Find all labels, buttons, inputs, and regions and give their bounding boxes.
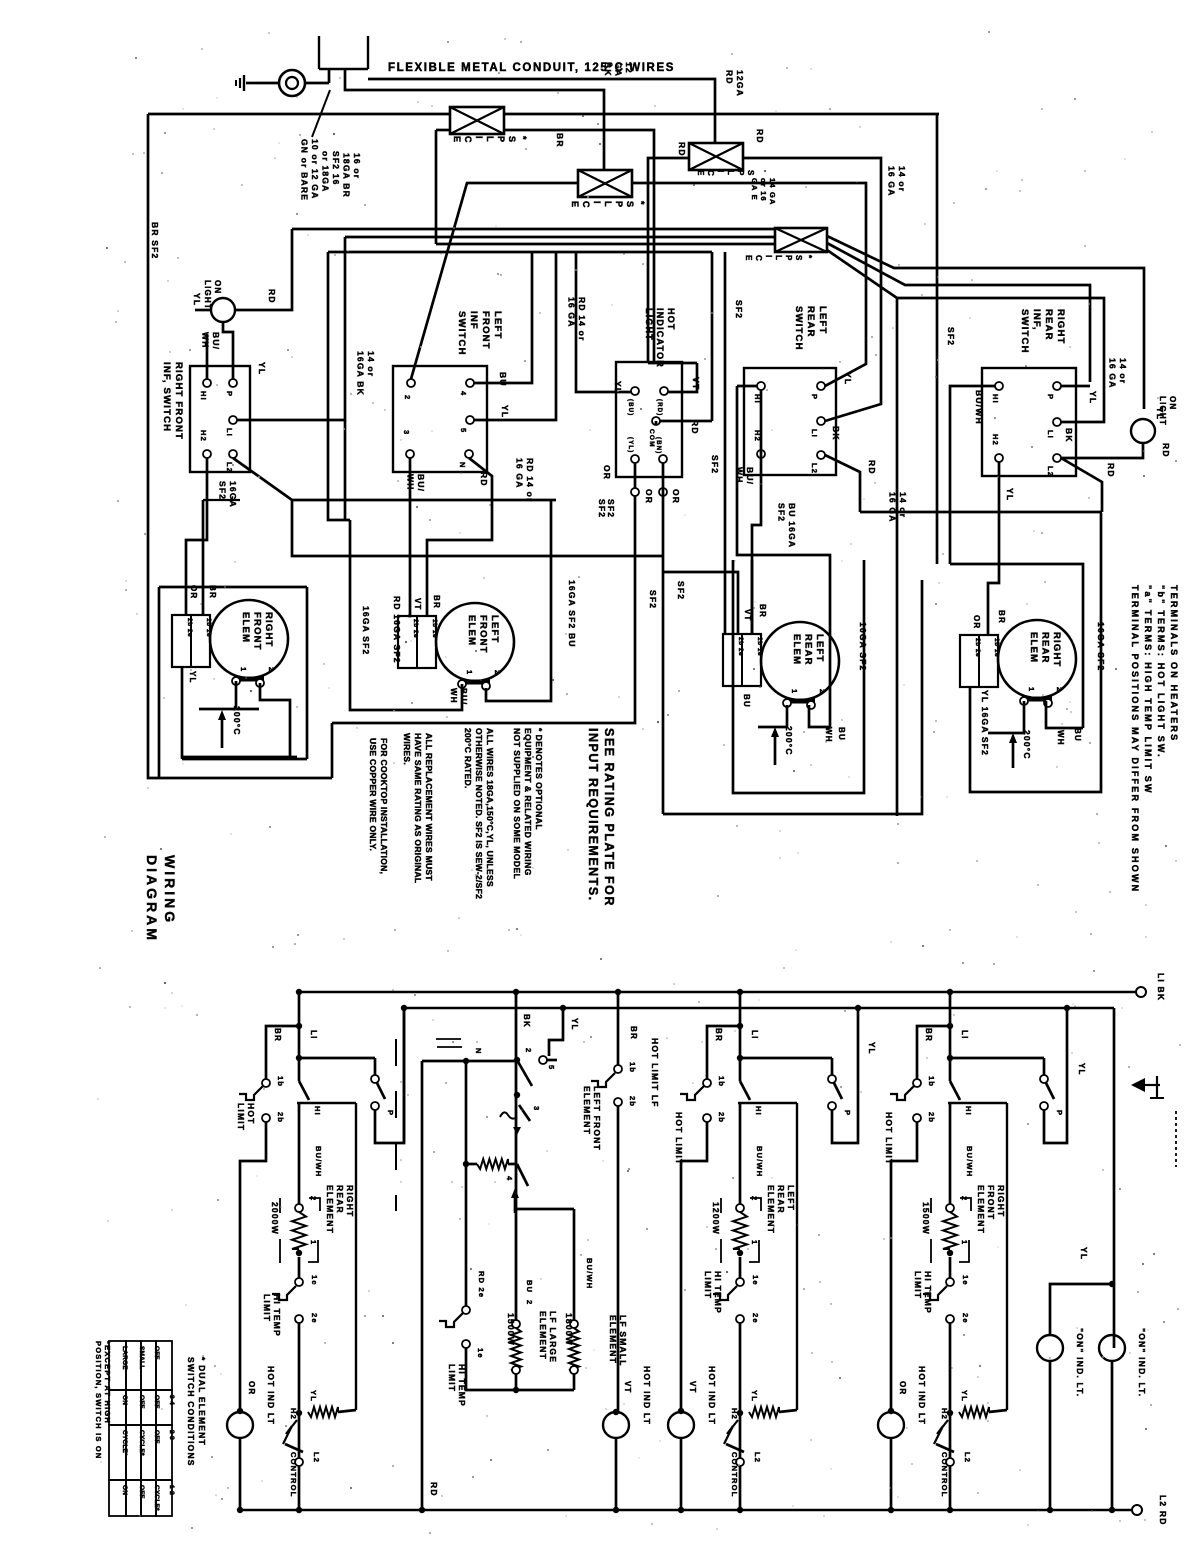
svg-text:2b: 2b <box>276 1112 285 1123</box>
svg-text:SF2 16: SF2 16 <box>331 151 341 186</box>
svg-text:16 GA: 16 GA <box>887 166 897 197</box>
svg-text:INDICATOR: INDICATOR <box>655 308 665 368</box>
svg-text:RD: RD <box>677 142 687 157</box>
svg-text:BR: BR <box>432 595 441 609</box>
svg-text:BR: BR <box>273 1028 282 1042</box>
branch at x=950 <box>947 989 953 995</box>
svg-text:ELEMENT: ELEMENT <box>766 1185 776 1234</box>
svg-text:LI: LI <box>960 1030 969 1040</box>
wire L2 RD down <box>825 455 860 512</box>
svg-text:BK: BK <box>603 62 613 77</box>
wire term2 down <box>260 683 290 757</box>
svg-text:YL: YL <box>188 671 197 684</box>
svg-text:LI: LI <box>810 429 819 438</box>
svg-text:H2: H2 <box>289 1408 298 1420</box>
svg-text:LI: LI <box>225 428 234 437</box>
svg-text:LIGHT: LIGHT <box>203 280 212 310</box>
svg-text:BU/WH: BU/WH <box>755 1146 764 1177</box>
svg-text:OFF: OFF <box>153 1395 160 1409</box>
svg-text:OTHERWISE NOTED. SF2 IS SEW-2/: OTHERWISE NOTED. SF2 IS SEW-2/SF2 <box>474 728 484 899</box>
wire S3 left to hot light BU <box>648 158 689 363</box>
enclosure right rear elem <box>970 513 1101 792</box>
svg-text:BK: BK <box>522 1014 531 1028</box>
term bottom 1800W <box>570 1366 578 1374</box>
control contact L2 <box>295 1458 303 1466</box>
wire H2 down to RF elem OR <box>186 458 207 615</box>
wire 2b to hot ind lt <box>891 1122 917 1411</box>
svg-text:OR: OR <box>671 489 681 504</box>
svg-text:12: 12 <box>624 62 634 74</box>
svg-text:P: P <box>784 255 793 261</box>
terminal block left front <box>398 616 436 668</box>
hi temp contact 1e <box>946 1278 954 1286</box>
svg-text:YL: YL <box>1155 407 1165 420</box>
svg-text:BR: BR <box>997 610 1006 624</box>
control lever <box>724 1420 738 1444</box>
svg-text:LIMIT: LIMIT <box>262 1294 272 1322</box>
P lever <box>1046 1083 1054 1099</box>
resistor 1500W <box>943 1212 957 1249</box>
svg-text:EQUIPMENT & RELATED WIRING: EQUIPMENT & RELATED WIRING <box>523 728 533 876</box>
svg-text:BR SF2: BR SF2 <box>150 222 160 259</box>
term bottom 1500W <box>512 1366 520 1374</box>
hot limit lever <box>239 1086 263 1100</box>
lever 3 <box>519 1105 530 1121</box>
wire BR arm <box>707 1026 740 1079</box>
wire BN down <box>662 463 665 814</box>
svg-text:1-2: 1-2 <box>168 1485 175 1495</box>
svg-text:SF2: SF2 <box>777 503 787 522</box>
wire ring to conduit <box>305 82 329 85</box>
svg-text:YL: YL <box>613 381 623 394</box>
svg-text:GN or BARE: GN or BARE <box>300 139 310 201</box>
hot limit lever b2 <box>591 1073 615 1087</box>
svg-text:10 or 12 GA: 10 or 12 GA <box>310 139 320 199</box>
svg-text:1: 1 <box>309 1240 318 1245</box>
wire ON light to P RF switch <box>223 322 233 379</box>
svg-text:12GA: 12GA <box>735 70 745 97</box>
svg-text:16 or: 16 or <box>352 153 362 179</box>
svg-text:"ON" IND. LT.: "ON" IND. LT. <box>1075 1328 1085 1397</box>
svg-text:BU: BU <box>525 1280 534 1293</box>
svg-text:H2: H2 <box>730 1408 739 1420</box>
svg-text:(RD): (RD) <box>656 399 662 416</box>
svg-text:REAR: REAR <box>1043 309 1054 341</box>
200C arrow RR <box>1012 737 1015 768</box>
wire term4 up <box>474 252 532 383</box>
wire x725 down to LR block <box>724 252 727 634</box>
wire 2b to hot ind lt <box>681 1122 707 1411</box>
wire BR down to block <box>751 560 754 634</box>
bracket 2 <box>309 1198 320 1211</box>
terminal 1 <box>737 1250 743 1256</box>
svg-text:L2: L2 <box>312 1452 321 1463</box>
svg-text:VT: VT <box>688 1381 697 1394</box>
svg-text:BU/: BU/ <box>745 467 755 485</box>
P switch at x=1044 <box>950 1057 1044 1060</box>
svg-text:L: L <box>774 255 783 260</box>
svg-text:RIGHT: RIGHT <box>263 612 274 648</box>
terminal 5 <box>466 416 474 424</box>
svg-text:L2: L2 <box>753 1452 762 1463</box>
bus 2 <box>404 1007 1114 1009</box>
svg-text:TERMINALS ON HEATERS: TERMINALS ON HEATERS <box>1169 585 1179 742</box>
svg-text:16GA BK: 16GA BK <box>356 351 366 396</box>
svg-text:L2: L2 <box>1046 466 1055 477</box>
svg-text:2b 2e: 2b 2e <box>412 619 419 638</box>
P lever <box>834 1083 842 1099</box>
svg-text:2: 2 <box>525 1300 534 1305</box>
svg-text:"a" TERMS: HIGH TEMP LIMIT SW: "a" TERMS: HIGH TEMP LIMIT SW <box>1143 585 1153 795</box>
terminal block right front <box>172 615 210 667</box>
svg-text:RD 2e: RD 2e <box>477 1271 486 1298</box>
terminal 2 <box>295 1204 303 1212</box>
svg-text:TERMINAL POSITIONS MAY DIFFER: TERMINAL POSITIONS MAY DIFFER FROM SHOWN <box>1130 585 1140 893</box>
svg-text:1500W: 1500W <box>921 1202 931 1235</box>
wire P right <box>1061 385 1090 388</box>
wires out of splice S4 diagonals <box>827 236 1144 409</box>
svg-text:2b 2e: 2b 2e <box>974 638 981 657</box>
svg-text:FRONT: FRONT <box>478 615 489 654</box>
terminal 1 <box>296 1250 302 1256</box>
wire COM right <box>660 420 712 423</box>
svg-text:LI: LI <box>1046 430 1055 439</box>
wire y252 <box>328 251 712 254</box>
terminal L1 <box>229 416 237 424</box>
svg-text:C: C <box>706 170 715 176</box>
branch at x=740 <box>737 989 743 995</box>
svg-text:BK: BK <box>831 426 841 441</box>
connector BN <box>659 488 667 496</box>
wire LF small down <box>573 1209 576 1320</box>
P contact upper <box>1040 1075 1048 1083</box>
svg-text:1b: 1b <box>717 1076 726 1087</box>
svg-text:1: 1 <box>1027 687 1036 692</box>
svg-text:P: P <box>386 1110 395 1116</box>
splice S3 <box>689 143 743 170</box>
hot limit contact 2b <box>262 1114 270 1122</box>
svg-text:HOT IND LT: HOT IND LT <box>707 1366 717 1425</box>
svg-text:14 or: 14 or <box>897 166 907 192</box>
infinite switch resistor <box>477 1159 508 1169</box>
svg-text:E: E <box>452 136 462 142</box>
wire S3 right to left rear switch L1 <box>743 158 881 421</box>
200C arrow line <box>221 714 224 748</box>
svg-text:ALL REPLACEMENT WIRES MUST: ALL REPLACEMENT WIRES MUST <box>424 733 434 881</box>
svg-text:2: 2 <box>818 689 827 694</box>
H2 junction <box>947 1410 953 1416</box>
branch at x=299 <box>296 989 302 995</box>
wire lamp1 top <box>1050 1284 1112 1334</box>
svg-text:SWITCH: SWITCH <box>1019 309 1030 354</box>
svg-text:HOT IND LT: HOT IND LT <box>642 1366 652 1425</box>
terminal H2 <box>757 450 765 458</box>
svg-text:OR: OR <box>247 1381 256 1395</box>
svg-text:RIGHT FRONT: RIGHT FRONT <box>173 362 184 440</box>
terminal H2 <box>995 454 1003 462</box>
bracket 1 <box>308 1240 318 1262</box>
svg-text:HOT: HOT <box>666 308 676 331</box>
wire 12GA RD: conduit to splice S3 <box>368 79 715 143</box>
terminal 4 <box>466 379 474 387</box>
svg-text:2b 2e: 2b 2e <box>737 637 744 656</box>
svg-text:LI BK: LI BK <box>1156 973 1166 1001</box>
leader arrow for ground wire label <box>312 90 330 137</box>
wire x897 down <box>896 298 899 816</box>
P contact lower <box>1040 1102 1048 1110</box>
svg-text:SF2: SF2 <box>734 300 744 319</box>
svg-text:SWITCH: SWITCH <box>793 306 804 351</box>
svg-text:2b: 2b <box>717 1112 726 1123</box>
svg-text:5: 5 <box>459 428 468 433</box>
svg-text:BU/: BU/ <box>211 332 221 350</box>
hot limit contact 2b <box>703 1114 711 1122</box>
svg-text:SMALL: SMALL <box>138 1346 145 1369</box>
svg-text:BR: BR <box>758 604 767 618</box>
svg-text:ELEMENT: ELEMENT <box>538 1311 548 1360</box>
svg-text:1800W: 1800W <box>564 1313 574 1346</box>
svg-text:LIMIT: LIMIT <box>447 1364 457 1392</box>
svg-text:16GA SF2 BU: 16GA SF2 BU <box>567 580 577 648</box>
lever 4 <box>517 1164 528 1186</box>
resistor 1800W <box>569 1328 579 1370</box>
HOT IND LT lamp b2 <box>603 1412 629 1438</box>
svg-text:16 GA: 16 GA <box>1108 358 1118 389</box>
hot limit contact 2b <box>913 1114 921 1122</box>
svg-text:LARGE: LARGE <box>121 1346 128 1370</box>
HI lever <box>740 1081 750 1100</box>
svg-text:OR: OR <box>898 1381 907 1395</box>
terminal 3 <box>406 450 414 458</box>
svg-text:*: * <box>518 136 528 140</box>
wire y572 to LR elem VT <box>663 572 738 634</box>
hot limit contact 1b b2 <box>614 1065 622 1073</box>
RIGHT REAR INF SWITCH box <box>982 368 1076 476</box>
wire h363 <box>648 362 697 365</box>
wire L2 RD diag <box>1061 458 1102 512</box>
svg-text:ELEM: ELEM <box>791 634 802 665</box>
svg-text:VT: VT <box>623 1381 632 1394</box>
svg-text:ON: ON <box>121 1395 128 1405</box>
hi temp lever <box>713 1286 737 1300</box>
svg-text:HOT IND LT: HOT IND LT <box>917 1366 927 1425</box>
branch left front dual <box>615 989 621 995</box>
control contact L2 <box>736 1458 744 1466</box>
svg-text:4: 4 <box>505 1176 514 1181</box>
svg-text:ON: ON <box>121 1485 128 1495</box>
svg-text:RD: RD <box>725 70 735 85</box>
wire H1 left down <box>950 386 995 564</box>
P contact lower <box>828 1102 836 1110</box>
svg-text:C: C <box>754 255 763 261</box>
svg-text:COM: COM <box>648 429 655 448</box>
svg-text:YL: YL <box>570 1018 579 1031</box>
LF element resistors <box>512 1320 520 1328</box>
svg-text:ALL WIRES 18GA,150°C,YL, UNLES: ALL WIRES 18GA,150°C,YL, UNLESS <box>485 728 495 887</box>
svg-text:REAR: REAR <box>803 634 814 666</box>
svg-text:BR: BR <box>924 1028 933 1042</box>
wire switch out to LF small <box>517 1208 574 1211</box>
wire P to bus2 <box>1044 1008 1067 1143</box>
hi temp lever <box>272 1286 296 1300</box>
terminal P <box>1053 382 1061 390</box>
svg-text:3: 3 <box>532 1106 541 1111</box>
svg-text:YL 16GA SF2: YL 16GA SF2 <box>980 690 990 756</box>
svg-text:YL: YL <box>500 405 510 418</box>
terminal H2 <box>203 450 211 458</box>
splice S1 <box>450 107 504 134</box>
svg-text:VT: VT <box>691 377 701 390</box>
bracket 2 <box>750 1198 761 1211</box>
hot limit contact 1b <box>262 1079 270 1087</box>
svg-text:P: P <box>496 136 506 142</box>
svg-text:"ON" IND. LT.: "ON" IND. LT. <box>1137 1328 1147 1397</box>
svg-text:RIGHT: RIGHT <box>996 1185 1006 1217</box>
bracket 1 <box>959 1240 969 1262</box>
contact 5 <box>539 1056 547 1064</box>
svg-text:P: P <box>1055 1110 1064 1116</box>
wires into splice S4 from left <box>292 228 775 231</box>
resistor 1200W <box>733 1212 747 1249</box>
svg-text:YL: YL <box>960 1390 969 1402</box>
svg-text:HI: HI <box>991 394 1000 404</box>
svg-text:SWITCH: SWITCH <box>456 311 467 356</box>
svg-text:HI: HI <box>199 391 208 401</box>
svg-text:YL: YL <box>1079 1247 1089 1260</box>
svg-text:YL: YL <box>192 293 202 306</box>
svg-text:CYCLE*: CYCLE* <box>138 1430 145 1456</box>
wire L2 diagonal <box>233 458 292 500</box>
svg-text:200°C RATED.: 200°C RATED. <box>463 728 473 789</box>
wire ON light YL stub <box>195 309 211 312</box>
svg-text:LF SMALL: LF SMALL <box>618 1315 628 1367</box>
HI lever <box>950 1081 960 1100</box>
svg-text:S: S <box>746 170 755 176</box>
svg-text:RIGHT: RIGHT <box>345 1185 355 1217</box>
svg-text:CYCLE*: CYCLE* <box>121 1430 128 1456</box>
P contact lower <box>371 1102 379 1110</box>
svg-text:RD: RD <box>267 289 277 304</box>
svg-text:"b" TERMS: HOT LIGHT SW.: "b" TERMS: HOT LIGHT SW. <box>1156 585 1166 759</box>
svg-text:(YL): (YL) <box>627 437 633 453</box>
svg-text:L: L <box>603 201 613 207</box>
svg-text:P: P <box>225 391 234 397</box>
svg-text:SF2: SF2 <box>710 455 720 474</box>
svg-text:1b 1e: 1b 1e <box>756 637 763 656</box>
svg-text:FRONT: FRONT <box>986 1185 996 1220</box>
wire bottom bus b2 <box>466 1348 574 1390</box>
LEFT REAR SWITCH box <box>744 368 836 475</box>
wire termN down BR <box>427 458 492 616</box>
svg-text:2b: 2b <box>927 1112 936 1123</box>
bracket 1 <box>749 1240 759 1262</box>
svg-text:14 or: 14 or <box>898 492 908 518</box>
svg-text:WH: WH <box>1056 730 1065 746</box>
HI lever <box>299 1081 309 1100</box>
svg-text:YL: YL <box>1077 1063 1086 1076</box>
svg-text:LIMIT: LIMIT <box>913 1271 923 1299</box>
svg-text:1b 1e: 1b 1e <box>205 618 212 637</box>
svg-text:BR: BR <box>714 1028 723 1042</box>
bus L2 RD bottom <box>239 1509 1132 1511</box>
svg-text:ON: ON <box>213 280 222 294</box>
svg-text:1b: 1b <box>927 1076 936 1087</box>
terminal L1 <box>817 417 825 425</box>
wire 12 GA BK: conduit to splice S2 <box>345 74 604 170</box>
svg-text:H2: H2 <box>940 1408 949 1420</box>
wire ON light RD up <box>235 229 292 310</box>
wire SF2 x712 to COM <box>711 252 714 421</box>
svg-text:RD: RD <box>479 472 489 487</box>
wire bus2 start down <box>403 1008 406 1143</box>
left front element <box>436 603 514 681</box>
svg-text:1e: 1e <box>961 1275 970 1286</box>
svg-text:L2: L2 <box>225 462 234 473</box>
hot limit lever <box>890 1086 914 1100</box>
svg-text:2e: 2e <box>751 1313 760 1324</box>
svg-text:* DUAL ELEMENT: * DUAL ELEMENT <box>197 1357 207 1446</box>
wire H1 stub <box>737 385 757 388</box>
svg-text:I: I <box>716 170 725 172</box>
svg-text:VT: VT <box>413 598 422 611</box>
right rear element <box>998 620 1076 698</box>
ground symbol (supply ground) <box>246 82 258 85</box>
wire term5 up <box>474 252 556 420</box>
terminal H1 <box>757 382 765 390</box>
control lever <box>934 1420 948 1444</box>
svg-text:C: C <box>463 136 473 143</box>
svg-text:14 GA: 14 GA <box>768 178 777 206</box>
svg-text:INF: INF <box>468 311 479 330</box>
svg-text:LF LARGE: LF LARGE <box>548 1311 558 1363</box>
control resistor <box>308 1407 338 1417</box>
svg-text:2000W: 2000W <box>270 1202 280 1235</box>
svg-text:1b: 1b <box>276 1076 285 1087</box>
svg-text:2: 2 <box>524 1048 533 1053</box>
svg-text:1e: 1e <box>310 1275 319 1286</box>
svg-text:BR: BR <box>555 133 565 148</box>
svg-text:OFF: OFF <box>138 1485 145 1499</box>
svg-text:P: P <box>810 394 819 400</box>
svg-text:YL: YL <box>843 372 853 385</box>
ON IND LT lamp 1 <box>1037 1335 1063 1361</box>
svg-text:BU/WH: BU/WH <box>965 1146 974 1177</box>
strain relief ring <box>279 70 305 96</box>
control lever <box>283 1420 297 1444</box>
hi temp contact 1e <box>295 1278 303 1286</box>
hi temp lever b2 <box>439 1313 463 1327</box>
svg-text:NOT SUPPLIED ON SOME MODEL: NOT SUPPLIED ON SOME MODEL <box>512 728 522 879</box>
svg-text:1500W: 1500W <box>506 1313 516 1346</box>
svg-text:S: S <box>794 255 803 261</box>
terminal N <box>465 450 473 458</box>
wire YL down and left <box>332 463 635 723</box>
svg-text:ELEM: ELEM <box>240 612 251 643</box>
wire L1 right up <box>237 237 345 420</box>
svg-text:YL: YL <box>867 1042 876 1055</box>
svg-text:H2: H2 <box>199 430 208 442</box>
wire x937 down <box>936 114 939 564</box>
svg-text:LEFT: LEFT <box>786 1185 796 1211</box>
svg-text:HI: HI <box>313 1106 322 1116</box>
terminal 1 <box>947 1250 953 1256</box>
splice S4 <box>775 228 827 252</box>
wire splice S2 right to left rear switch P <box>632 183 866 386</box>
svg-text:OR: OR <box>602 465 612 480</box>
terminal P <box>229 379 237 387</box>
svg-text:FRONT: FRONT <box>252 612 263 651</box>
wire y500 to right <box>292 499 556 502</box>
